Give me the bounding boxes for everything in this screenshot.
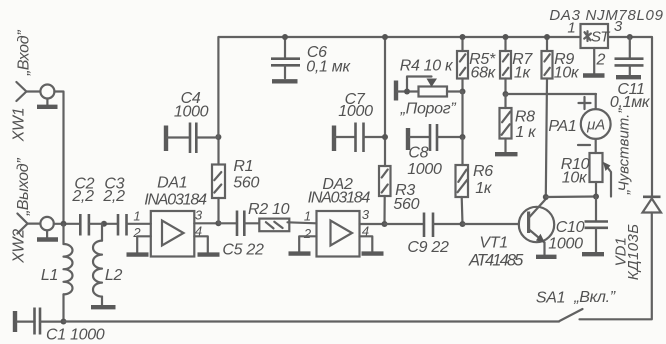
- svg-text:0,1 мк: 0,1 мк: [306, 59, 351, 76]
- svg-text:1: 1: [304, 209, 311, 224]
- node K (junction C1/L1/bottom rail): [61, 319, 67, 325]
- node (R4 wiper tie): [404, 89, 410, 95]
- svg-text:2: 2: [303, 226, 312, 241]
- wire DA3 pin3 to right edge: [608, 37, 652, 197]
- ground (VT1 emitter): [536, 255, 557, 259]
- svg-text:C5 22: C5 22: [222, 242, 264, 259]
- node (bus on rail): [382, 34, 388, 40]
- ground (XW2 shield): [37, 230, 58, 239]
- svg-text:1к: 1к: [475, 180, 493, 197]
- ground (DA2 pin2): [289, 251, 311, 255]
- svg-text:1к: 1к: [514, 64, 532, 81]
- svg-text:XW1: XW1: [11, 108, 28, 143]
- svg-text:R4 10 к: R4 10 к: [400, 58, 454, 75]
- diode VD1 KD103B: [643, 197, 662, 213]
- wire XW1 to node A: [54, 92, 63, 225]
- node (C8 on bus): [460, 134, 466, 140]
- svg-text:PA1: PA1: [548, 118, 576, 135]
- ground (R8): [495, 152, 518, 156]
- svg-text:C10: C10: [556, 219, 585, 236]
- svg-text:DA1: DA1: [157, 175, 187, 192]
- resistor R9 10k: [542, 37, 553, 197]
- wire DA1 pin3 to node C: [194, 222, 218, 224]
- capacitor C7 1000: [334, 123, 385, 153]
- connector XW1: [16, 82, 54, 101]
- wire rail to R3 (vertical bus x=385): [384, 37, 386, 166]
- svg-text:INA03184: INA03184: [144, 192, 207, 209]
- svg-text:3: 3: [195, 208, 203, 223]
- svg-text:INA03184: INA03184: [308, 190, 371, 207]
- wire DA2 pin4 to ground: [360, 236, 373, 251]
- node (C7 on bus): [382, 134, 388, 140]
- svg-text:1 к: 1 к: [515, 124, 537, 141]
- resistor R3 560: [379, 166, 391, 224]
- wire DA3 pin2 to ground: [593, 48, 595, 74]
- svg-text:1000: 1000: [338, 103, 373, 120]
- node G (junction C9/R6/VT1 base): [460, 221, 466, 227]
- potentiometer R10 10k: [590, 153, 612, 197]
- svg-text:XW2: XW2: [11, 229, 28, 264]
- inductor L1: [64, 224, 73, 322]
- switch SA1: [560, 309, 583, 321]
- svg-text:R1: R1: [233, 158, 253, 175]
- svg-text:2,2: 2,2: [71, 188, 94, 205]
- resistor R7 1k: [500, 37, 511, 94]
- ground (DA3 pin2): [583, 73, 605, 77]
- node C (junction DA1 out / R1 / C5): [215, 220, 221, 226]
- svg-text:2,2: 2,2: [102, 188, 125, 205]
- capacitor C11 0,1mk: [615, 37, 644, 75]
- svg-text:1: 1: [133, 209, 140, 224]
- svg-text:10к: 10к: [554, 64, 580, 81]
- wire XW2 to node A: [54, 223, 81, 225]
- minus terminal: [578, 144, 590, 146]
- node F (junction R5/R4/R6 bus): [460, 89, 466, 95]
- wire C3 to DA1 pin1: [127, 223, 151, 225]
- wire node F to C8 node: [461, 92, 463, 138]
- capacitor C4 1000: [166, 123, 218, 154]
- svg-text:3: 3: [614, 18, 623, 35]
- svg-text:„Чувствит.”: „Чувствит.”: [616, 108, 633, 196]
- wire DA2 pin3 to node E: [360, 223, 385, 225]
- svg-text:R6: R6: [473, 163, 493, 180]
- resistor R8 1k: [500, 94, 512, 152]
- meter PA1: [581, 94, 611, 153]
- wire DA1 pin2 to ground: [137, 236, 151, 252]
- svg-text:1000: 1000: [548, 235, 583, 252]
- ground (DA2 pin4): [362, 251, 384, 255]
- resistor R1 560: [212, 137, 225, 223]
- svg-text:C8: C8: [408, 144, 428, 161]
- voltage regulator DA3 NJM78L09: [581, 24, 612, 48]
- svg-text:КД103Б: КД103Б: [625, 224, 642, 281]
- wire VD1 anode to switch corner: [580, 213, 652, 320]
- ground (L2): [91, 305, 116, 309]
- svg-text:VT1: VT1: [479, 235, 507, 252]
- capacitor C9 22: [385, 213, 463, 238]
- ground (C6): [272, 79, 298, 83]
- svg-text:68к: 68к: [470, 64, 496, 81]
- inductor L2: [93, 224, 102, 305]
- capacitor C10 1000: [585, 197, 609, 253]
- wire C2 to C3: [89, 223, 118, 225]
- node (R7 on rail): [503, 34, 509, 40]
- svg-text:„Вкл.”: „Вкл.”: [573, 289, 616, 306]
- svg-text:C1 1000: C1 1000: [46, 327, 105, 344]
- svg-text:„Выход”: „Выход”: [15, 158, 32, 217]
- svg-text:10к: 10к: [562, 169, 588, 186]
- svg-text:1000: 1000: [407, 161, 442, 178]
- ground (XW1 shield): [37, 99, 58, 107]
- potentiometer R4 10k "Porog": [396, 77, 463, 101]
- wire bottom rail: [64, 320, 560, 322]
- ground (DA1 pin4): [198, 252, 220, 256]
- svg-text:„Порог”: „Порог”: [400, 101, 457, 118]
- svg-text:L1: L1: [41, 267, 58, 284]
- svg-text:SA1: SA1: [536, 290, 565, 307]
- node E (junction DA2 out / R3 / C9): [382, 221, 388, 227]
- resistor R5* 68k: [457, 37, 468, 92]
- node D (junction C4/R1/rail): [215, 134, 221, 140]
- svg-text:2: 2: [595, 52, 605, 69]
- svg-text:AT41485: AT41485: [468, 251, 524, 269]
- node H (junction R7/R8/meter wire): [503, 91, 509, 97]
- wire DA1 pin4 to ground: [194, 236, 208, 252]
- resistor R6 1k: [456, 137, 469, 224]
- node (R5 on rail): [460, 34, 466, 40]
- svg-text:0,1мк: 0,1мк: [610, 94, 651, 111]
- svg-text:3: 3: [362, 207, 370, 222]
- connector XW2: [17, 214, 53, 234]
- svg-text:560: 560: [393, 196, 419, 213]
- ground (C11): [616, 75, 641, 79]
- capacitor C8 1000: [408, 124, 463, 151]
- ground (C10): [582, 252, 604, 256]
- svg-text:1: 1: [567, 20, 575, 37]
- node I (collector junction): [543, 194, 549, 200]
- capacitor C5 22: [218, 211, 259, 237]
- node B (junction C2/C3/L2): [101, 221, 107, 227]
- svg-text:„Вход”: „Вход”: [16, 30, 33, 77]
- svg-text:R2 10: R2 10: [248, 201, 290, 218]
- node J (junction R10/C10/collector wire): [593, 194, 599, 200]
- transistor VT1 AT41485: [463, 199, 555, 255]
- svg-text:L2: L2: [105, 267, 123, 284]
- svg-text:μА: μА: [586, 117, 605, 134]
- svg-text:1000: 1000: [174, 104, 209, 121]
- node (C6 on rail): [282, 34, 288, 40]
- wire collector node to R10/C10 node: [546, 195, 596, 198]
- op-amp DA1 INA03184: [151, 211, 195, 257]
- wire node H to PA1: [506, 93, 597, 95]
- capacitor C3: [118, 214, 127, 236]
- op-amp DA2 INA03184: [317, 211, 360, 257]
- capacitor C2: [80, 214, 89, 236]
- node (C11 tap): [627, 34, 633, 40]
- capacitor C1 1000: [15, 308, 64, 335]
- node A (junction XW1/XW2/L1/C2): [61, 221, 67, 227]
- wire +9V rail (left segment to DA3 pin1): [218, 37, 580, 137]
- ground (DA1 pin2): [127, 252, 149, 256]
- svg-text:C9 22: C9 22: [407, 239, 449, 256]
- capacitor C6 0,1mk: [271, 37, 300, 78]
- wire DA2 pin2 to ground: [299, 236, 316, 251]
- svg-text:R8: R8: [515, 108, 535, 125]
- node (R9 on rail): [544, 34, 550, 40]
- svg-text:560: 560: [233, 175, 259, 192]
- plus terminal: [579, 97, 591, 109]
- resistor R2 10: [259, 219, 316, 232]
